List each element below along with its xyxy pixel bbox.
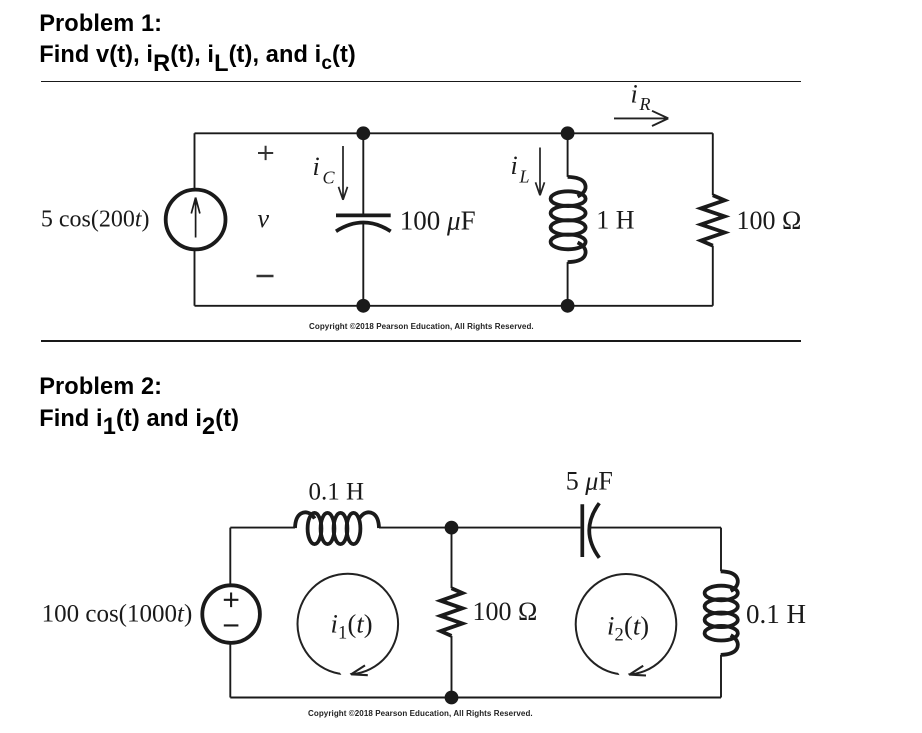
- svg-text:0.1 H: 0.1 H: [746, 599, 806, 629]
- svg-text:100 cos(1000t): 100 cos(1000t): [42, 600, 193, 627]
- svg-text:(t): (t): [624, 611, 649, 641]
- wire resistor branch circuit 2: [451, 528, 453, 698]
- capacitor C2 5uF: [582, 503, 599, 558]
- wire inductor branch: [567, 133, 569, 305]
- inductor L2a 0.1H horizontal: [295, 512, 379, 544]
- svg-text:2: 2: [615, 626, 624, 646]
- heading Problem 1: [39, 11, 162, 38]
- wire top side circuit 1: [195, 132, 713, 134]
- svg-text:i: i: [607, 611, 614, 641]
- copyright line figure 2: [308, 709, 533, 718]
- label plus sign of v: [258, 146, 273, 160]
- svg-text:100 Ω: 100 Ω: [737, 206, 802, 235]
- svg-text:v: v: [258, 204, 270, 233]
- svg-text:1 H: 1 H: [596, 206, 635, 235]
- inductor L1 1H: [551, 177, 586, 262]
- wire bottom side circuit 1: [195, 305, 713, 307]
- horizontal rule 2: [41, 340, 802, 342]
- svg-text:5 cos(200t): 5 cos(200t): [41, 206, 150, 232]
- heading Find v(t), iR(t), iL(t), and iC(t): [39, 42, 356, 69]
- svg-text:R: R: [639, 94, 651, 114]
- svg-text:100 μF: 100 μF: [400, 205, 476, 235]
- wire right side circuit 1: [712, 133, 714, 305]
- heading Find i1(t) and i2(t): [39, 406, 239, 433]
- resistor R1 100ohm: [701, 195, 725, 245]
- node top-capacitor: [356, 126, 370, 140]
- inductor L2b 0.1H vertical right: [705, 571, 738, 655]
- svg-text:i: i: [631, 80, 638, 109]
- node bottom-inductor: [561, 299, 575, 313]
- resistor R2 100ohm: [441, 588, 463, 636]
- voltage source VS 100cos(1000t): [202, 585, 260, 643]
- wire left side circuit 2: [229, 528, 231, 698]
- wire left side circuit 1: [194, 133, 196, 305]
- svg-text:100 Ω: 100 Ω: [473, 597, 538, 626]
- mesh current loop i2: [576, 574, 677, 675]
- label minus sign of v: [257, 275, 274, 277]
- horizontal rule 1: [41, 81, 802, 83]
- node top-inductor: [561, 126, 575, 140]
- capacitor C1 100uF: [336, 215, 391, 231]
- wire bottom side circuit 2: [230, 697, 721, 699]
- current source IS1 5cos(200t): [166, 190, 226, 250]
- svg-text:C: C: [323, 168, 336, 188]
- svg-text:(t): (t): [348, 609, 373, 639]
- wire capacitor branch: [362, 133, 364, 305]
- node bottom-capacitor: [356, 299, 370, 313]
- mesh current loop i1: [298, 574, 399, 675]
- svg-text:5 μF: 5 μF: [566, 467, 613, 496]
- node top resistor c2: [445, 521, 459, 535]
- svg-text:1: 1: [338, 624, 347, 644]
- heading Problem 2: [39, 374, 162, 401]
- svg-text:i: i: [511, 151, 518, 180]
- svg-text:0.1 H: 0.1 H: [309, 479, 365, 506]
- copyright line figure 1: [309, 322, 534, 331]
- node bottom resistor c2: [445, 691, 459, 705]
- svg-text:L: L: [519, 167, 530, 187]
- wire top side circuit 2: [230, 528, 721, 698]
- svg-text:i: i: [331, 609, 338, 639]
- svg-text:i: i: [313, 152, 320, 181]
- wire right side circuit 2: [720, 528, 722, 698]
